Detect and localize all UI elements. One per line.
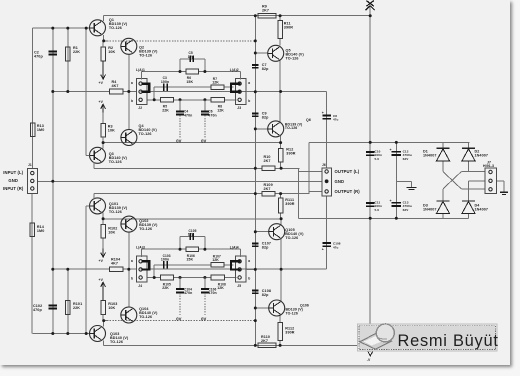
svg-text:12p: 12p [188, 55, 194, 59]
svg-text:12K: 12K [217, 286, 224, 290]
svg-text:10K: 10K [108, 231, 115, 235]
svg-text:INPUT (L): INPUT (L) [3, 170, 23, 175]
svg-text:0V: 0V [176, 139, 181, 144]
svg-text:TO-126: TO-126 [109, 26, 122, 30]
svg-text:+V: +V [99, 100, 104, 104]
svg-text:10K: 10K [108, 50, 115, 54]
svg-text:J2: J2 [138, 106, 142, 110]
svg-text:22K: 22K [162, 108, 169, 112]
svg-text:82p: 82p [262, 293, 269, 297]
svg-text:4K7: 4K7 [111, 262, 118, 266]
svg-text:J6: J6 [322, 163, 326, 167]
svg-text:4K7: 4K7 [112, 84, 119, 88]
svg-text:2K7: 2K7 [264, 187, 271, 191]
svg-text:12K: 12K [212, 81, 219, 85]
svg-text:63V: 63V [403, 208, 410, 212]
svg-text:J3: J3 [237, 106, 241, 110]
svg-text:470n: 470n [208, 291, 216, 295]
svg-text:2K7: 2K7 [262, 9, 269, 13]
svg-text:47u: 47u [333, 118, 339, 122]
svg-text:b: b [248, 277, 250, 281]
svg-text:10K: 10K [108, 306, 115, 310]
svg-text:+V: +V [99, 81, 104, 85]
svg-text:Q6: Q6 [306, 118, 311, 122]
svg-text:HI91-3: HI91-3 [483, 164, 494, 168]
svg-text:82p: 82p [262, 67, 269, 71]
svg-text:TO-126: TO-126 [109, 210, 122, 214]
svg-text:a: a [131, 259, 133, 263]
svg-text:TO-126: TO-126 [139, 315, 152, 319]
svg-text:+: + [390, 199, 392, 203]
svg-text:1N4007: 1N4007 [475, 208, 489, 212]
svg-text:TO-126: TO-126 [285, 126, 297, 130]
svg-text:a: a [248, 81, 250, 85]
svg-text:GND: GND [8, 178, 18, 183]
svg-text:TO-126: TO-126 [109, 160, 122, 164]
svg-text:+V: +V [99, 259, 104, 263]
svg-text:L(A)2: L(A)2 [230, 68, 239, 72]
svg-text:b: b [248, 99, 250, 103]
svg-text:22K: 22K [73, 306, 80, 310]
svg-text:0V: 0V [201, 316, 206, 321]
svg-text:15K: 15K [186, 80, 193, 84]
svg-text:TO-126: TO-126 [110, 340, 123, 344]
svg-text:5.6: 5.6 [375, 157, 380, 161]
svg-text:0V: 0V [176, 316, 181, 321]
svg-text:1N4007: 1N4007 [423, 154, 437, 158]
svg-text:390R: 390R [286, 152, 295, 156]
svg-text:22K: 22K [73, 50, 80, 54]
svg-text:L(A)4: L(A)4 [230, 246, 239, 250]
svg-text:2K7: 2K7 [261, 339, 268, 343]
svg-text:0V: 0V [201, 139, 206, 144]
svg-text:b: b [131, 99, 133, 103]
svg-text:470n: 470n [184, 291, 192, 295]
svg-text:12K: 12K [217, 108, 224, 112]
svg-text:100n: 100n [161, 258, 169, 262]
svg-text:+: + [322, 111, 324, 115]
svg-text:TO-126: TO-126 [139, 227, 152, 231]
svg-text:-V: -V [367, 358, 371, 362]
svg-text:82p: 82p [262, 246, 269, 250]
svg-text:10K: 10K [108, 129, 115, 133]
svg-text:+V: +V [99, 278, 104, 282]
svg-text:390R: 390R [284, 26, 293, 30]
svg-text:12K: 12K [212, 258, 219, 262]
svg-text:1N4007: 1N4007 [475, 154, 489, 158]
svg-text:b: b [131, 277, 133, 281]
svg-text:L(A)3: L(A)3 [136, 246, 145, 250]
svg-text:TO-126: TO-126 [139, 132, 152, 136]
svg-text:12p: 12p [188, 233, 194, 237]
svg-text:a: a [131, 81, 133, 85]
svg-text:390R: 390R [285, 331, 294, 335]
svg-text:TO-126: TO-126 [139, 54, 152, 58]
svg-text:L(A)1: L(A)1 [136, 68, 145, 72]
svg-text:47u: 47u [333, 245, 339, 249]
svg-text:J5: J5 [237, 284, 241, 288]
svg-text:470n: 470n [184, 113, 192, 117]
svg-text:TO-126: TO-126 [286, 311, 298, 315]
svg-text:OUTPUT (L): OUTPUT (L) [335, 169, 360, 174]
svg-text:2K7: 2K7 [264, 159, 271, 163]
svg-text:5.6: 5.6 [375, 208, 380, 212]
svg-text:470p: 470p [33, 308, 42, 312]
svg-text:22K: 22K [162, 286, 169, 290]
svg-text:Resmi Büyüt: Resmi Büyüt [398, 332, 499, 350]
svg-text:63V: 63V [403, 157, 410, 161]
svg-text:J4: J4 [138, 284, 142, 288]
svg-text:1M0: 1M0 [37, 128, 44, 132]
svg-text:TO-126: TO-126 [285, 236, 298, 240]
svg-text:470p: 470p [34, 55, 43, 59]
svg-text:+: + [322, 248, 324, 252]
svg-text:GND: GND [335, 179, 345, 184]
svg-text:470n: 470n [208, 113, 216, 117]
svg-text:82p: 82p [262, 116, 269, 120]
svg-text:1N4007: 1N4007 [423, 208, 437, 212]
svg-text:1M0: 1M0 [37, 229, 44, 233]
svg-text:J1: J1 [28, 163, 32, 167]
svg-text:100n: 100n [161, 80, 169, 84]
svg-text:TO-126: TO-126 [286, 57, 299, 61]
svg-text:390R: 390R [285, 202, 294, 206]
svg-text:15K: 15K [186, 258, 193, 262]
svg-text:a: a [248, 259, 250, 263]
svg-text:INPUT (R): INPUT (R) [3, 186, 24, 191]
svg-text:+: + [390, 148, 392, 152]
svg-text:OUTPUT (R): OUTPUT (R) [335, 189, 361, 194]
